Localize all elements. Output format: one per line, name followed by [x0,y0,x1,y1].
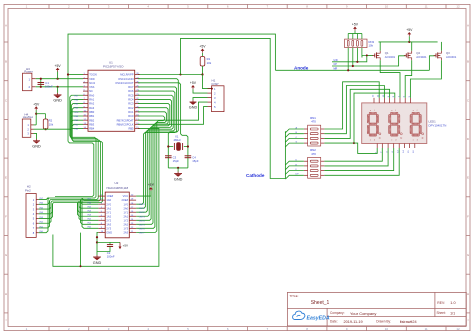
svg-text:74HC244PW,118: 74HC244PW,118 [106,186,129,190]
svg-text:RA1: RA1 [89,98,95,102]
svg-text:U/D: U/D [334,59,338,62]
svg-text:Your Company: Your Company [350,311,376,316]
svg-text:1/1: 1/1 [450,311,455,315]
svg-text:RB4: RB4 [89,127,95,131]
svg-text:Sheet_1: Sheet_1 [311,300,330,306]
svg-text:OUT2: OUT2 [139,212,146,214]
svg-text:OUT7: OUT7 [139,232,146,234]
svg-text:2Y1: 2Y1 [106,210,111,214]
svg-text:RC2: RC2 [128,106,134,110]
svg-text:EasyEDA: EasyEDA [307,315,330,321]
svg-text:2Y3: 2Y3 [106,226,111,230]
svg-text:AO3401: AO3401 [416,55,427,59]
svg-text:RB5: RB5 [128,127,134,131]
svg-text:F: F [467,214,469,218]
svg-text:OSC2/CLKOUT: OSC2/CLKOUT [115,81,134,85]
svg-text:DP: DP [296,174,300,176]
svg-text:470: 470 [311,152,316,156]
svg-text:U2: U2 [115,181,119,185]
svg-text:12: 12 [456,5,460,9]
svg-text:OUT6: OUT6 [139,228,146,230]
svg-text:2A3: 2A3 [123,230,128,234]
svg-text:GND: GND [174,177,183,181]
svg-text:Cathode: Cathode [246,173,265,178]
svg-text:2019-11-19: 2019-11-19 [344,320,363,324]
svg-text:1Y1: 1Y1 [123,210,128,214]
svg-text:OUT4: OUT4 [139,220,146,222]
svg-text:100nF: 100nF [45,85,53,89]
svg-text:E: E [5,176,7,180]
svg-text:MCLR/VPP: MCLR/VPP [120,73,134,77]
svg-text:11: 11 [425,327,428,331]
svg-text:A: A [5,23,7,27]
svg-text:1OE#: 1OE# [106,194,113,198]
svg-text:d: d [417,140,418,142]
svg-text:OUT1: OUT1 [139,208,146,210]
svg-text:U/D: U/D [75,112,79,114]
svg-text:Hex/Dec: Hex/Dec [23,115,34,119]
svg-text:H: H [467,292,469,296]
svg-text:E: E [467,176,469,180]
svg-text:RC4: RC4 [128,98,134,102]
svg-text:1Y3: 1Y3 [123,226,128,230]
svg-text:CP: CP [334,63,338,66]
svg-text:10k: 10k [49,122,54,126]
svg-text:+5V: +5V [352,23,359,27]
svg-text:+5V: +5V [33,102,40,106]
svg-text:e: e [370,140,371,142]
svg-text:RB0: RB0 [89,110,95,114]
svg-text:1A2: 1A2 [106,214,111,218]
svg-text:MR: MR [334,68,338,71]
svg-text:1A1: 1A1 [106,206,111,210]
svg-text:TOCKI: TOCKI [89,73,97,77]
svg-text:OSC1/CLKIN: OSC1/CLKIN [118,77,134,81]
svg-text:2Y0: 2Y0 [106,202,111,206]
svg-text:Pin2: Pin2 [25,188,31,192]
svg-text:2A1: 2A1 [123,214,128,218]
svg-text:2Y2: 2Y2 [106,218,111,222]
svg-text:e: e [413,140,414,142]
svg-text:RA2: RA2 [89,102,95,106]
svg-text:e: e [391,140,392,142]
svg-text:+5V: +5V [406,28,413,32]
svg-text:TITLE:: TITLE: [290,294,299,298]
svg-text:1Y2: 1Y2 [123,218,128,222]
svg-text:10: 10 [385,5,389,9]
svg-text:REV:: REV: [437,301,445,305]
svg-text:RC0: RC0 [128,114,134,118]
svg-text:12: 12 [456,327,460,331]
svg-text:H: H [5,292,7,296]
svg-text:PIC16F57-I/SO: PIC16F57-I/SO [103,64,124,68]
svg-text:RB1: RB1 [89,114,95,118]
svg-text:VDD: VDD [89,77,95,81]
svg-text:NC: NC [89,89,93,93]
svg-text:2A2: 2A2 [123,222,128,226]
svg-text:RC3: RC3 [128,102,134,106]
svg-text:G: G [296,142,298,144]
svg-text:1A0: 1A0 [106,198,111,202]
svg-text:AO3401: AO3401 [385,55,396,59]
svg-text:GND: GND [53,99,62,103]
svg-text:dp: dp [400,138,402,140]
svg-text:B: B [467,60,469,64]
svg-text:10: 10 [385,327,389,331]
svg-text:VSS: VSS [89,85,94,89]
svg-text:RC5: RC5 [128,93,134,97]
svg-text:dp: dp [379,138,381,140]
svg-text:RA0: RA0 [89,93,95,97]
svg-text:RB6/ICSPCLK: RB6/ICSPCLK [117,122,134,126]
svg-text:Drawn By:: Drawn By: [376,320,391,324]
svg-text:d: d [374,140,375,142]
svg-text:ICSP: ICSP [212,82,219,86]
svg-text:GND: GND [32,144,41,148]
svg-text:OUT3: OUT3 [139,216,146,218]
svg-text:Date:: Date: [330,320,338,324]
svg-text:GND: GND [93,261,102,265]
svg-text:RB2: RB2 [89,118,95,122]
svg-text:100nF: 100nF [107,255,115,259]
svg-text:15pF: 15pF [192,159,199,163]
svg-text:2OE#: 2OE# [121,198,128,202]
svg-text:RC1: RC1 [128,110,134,114]
svg-text:470: 470 [311,120,316,124]
svg-text:DPY10401TN: DPY10401TN [429,123,447,127]
svg-text:+5V: +5V [148,183,155,187]
svg-text:Anode: Anode [294,65,309,70]
svg-text:RA3: RA3 [89,106,95,110]
svg-text:A: A [467,23,469,27]
svg-text:RC7: RC7 [128,85,134,89]
svg-text:2A0: 2A0 [123,206,128,210]
svg-text:dp: dp [422,138,424,140]
svg-text:B: B [5,60,7,64]
svg-text:d: d [395,140,396,142]
svg-text:Company:: Company: [330,311,345,315]
svg-text:+5V: +5V [55,64,62,68]
svg-text:Sheet:: Sheet: [437,311,446,315]
svg-text:OUT5: OUT5 [139,224,146,226]
svg-text:15pF: 15pF [173,159,180,163]
svg-text:ltsirawit24: ltsirawit24 [400,320,417,324]
svg-text:+5V: +5V [123,243,128,247]
svg-text:GND: GND [189,105,198,109]
svg-text:GND: GND [106,230,112,234]
svg-text:1A3: 1A3 [106,222,111,226]
svg-text:F: F [5,214,7,218]
svg-text:OUT0: OUT0 [139,204,146,206]
svg-text:RC6: RC6 [128,89,134,93]
svg-text:VCC: VCC [123,194,129,198]
svg-text:AO3401: AO3401 [446,55,457,59]
svg-text:NC/2: NC/2 [89,81,95,85]
svg-text:+5V: +5V [190,81,197,85]
svg-text:10k: 10k [207,61,212,65]
svg-text:1.0: 1.0 [450,301,455,305]
svg-text:+5V: +5V [199,45,206,49]
svg-text:1Y0: 1Y0 [123,202,128,206]
svg-text:RB3: RB3 [89,122,95,126]
svg-text:4MHz: 4MHz [174,138,182,142]
svg-text:RB7/ICSPDAT: RB7/ICSPDAT [117,118,134,122]
svg-text:10k: 10k [369,43,374,47]
svg-text:11: 11 [425,5,428,9]
